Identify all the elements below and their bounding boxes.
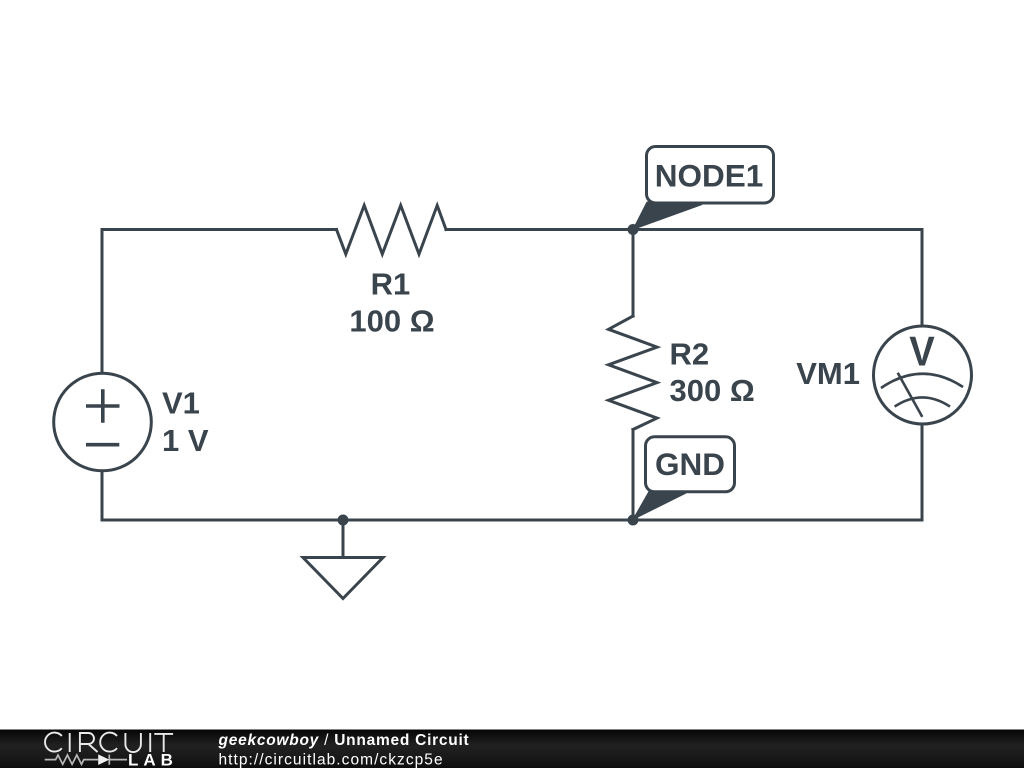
label V1 value: [162, 386, 209, 459]
resistor R2: [609, 316, 658, 430]
svg-text:V: V: [909, 328, 935, 375]
wire: R2 bottom lead: [632, 430, 635, 521]
node junction dot: GND at R2 bottom: [628, 515, 639, 526]
wire: V1 top lead and top-left horizontal: [102, 230, 337, 374]
svg-text:GND: GND: [655, 446, 725, 482]
wire: R2 top lead: [632, 230, 635, 317]
CircuitLab logo: CIRCUIT letters: [45, 733, 173, 752]
svg-text:300 Ω: 300 Ω: [670, 373, 755, 408]
svg-text:R1: R1: [371, 266, 411, 301]
resistor R1: [337, 205, 447, 254]
CircuitLab logo: diode triangle: [98, 754, 109, 765]
node junction dot: ground wire: [338, 515, 349, 526]
CircuitLab logo: resistor-diode glyph: [45, 755, 127, 765]
svg-text:V1: V1: [162, 386, 200, 421]
node junction dot: NODE1: [628, 224, 639, 235]
ground stem wire: [342, 520, 345, 557]
label R1 value: [349, 266, 434, 338]
svg-text:NODE1: NODE1: [655, 157, 764, 193]
svg-text:R2: R2: [670, 337, 710, 372]
node GND callout: [633, 437, 735, 520]
svg-text:geekcowboy / Unnamed Circuit: geekcowboy / Unnamed Circuit: [218, 732, 470, 749]
footer bar: [0, 730, 1024, 768]
svg-text:100 Ω: 100 Ω: [349, 304, 434, 339]
wire: V1 bottom lead, bottom horizontal, VM1 bottom lead: [102, 424, 922, 521]
voltmeter VM1: [874, 326, 972, 424]
svg-text:LAB: LAB: [128, 751, 178, 768]
svg-text:1 V: 1 V: [162, 423, 209, 458]
voltage source V1: [54, 373, 152, 471]
wire: top-right horizontal and VM1 top lead: [446, 230, 922, 327]
label R2 value: [670, 337, 755, 408]
svg-text:http://circuitlab.com/ckzcp5e: http://circuitlab.com/ckzcp5e: [219, 751, 444, 768]
ground symbol: [303, 558, 383, 599]
node NODE1 callout: [633, 147, 774, 230]
svg-text:VM1: VM1: [796, 356, 860, 391]
